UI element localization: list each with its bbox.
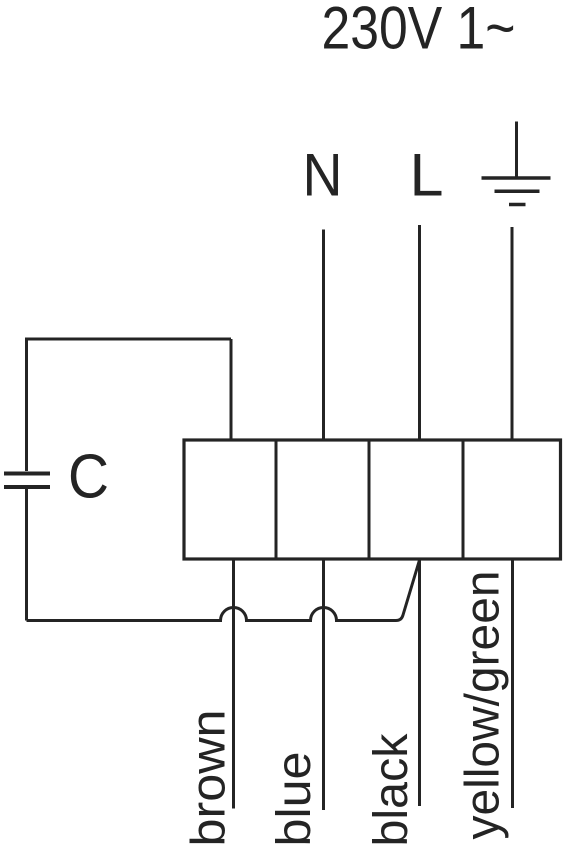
label black bbox=[365, 732, 418, 846]
label brown bbox=[183, 710, 236, 847]
svg-text:black: black bbox=[365, 732, 418, 846]
wire N to terminal 2 bbox=[322, 230, 325, 441]
wire blue from terminal 2 bbox=[322, 559, 325, 810]
svg-text:C: C bbox=[68, 443, 109, 512]
wire capacitor loop right vertical to terminal 1 bbox=[230, 339, 233, 440]
label yellow/green bbox=[457, 571, 510, 840]
label blue bbox=[268, 752, 321, 847]
wire capacitor left vertical lower bbox=[25, 489, 28, 621]
wire capacitor left vertical upper bbox=[25, 338, 28, 472]
ground / protective earth symbol bbox=[482, 122, 551, 205]
svg-text:N: N bbox=[303, 142, 343, 209]
wire yellow/green from terminal 4 bbox=[511, 559, 514, 808]
svg-text:L: L bbox=[410, 142, 444, 209]
terminal label L bbox=[410, 142, 444, 209]
svg-text:yellow/green: yellow/green bbox=[457, 571, 510, 840]
terminal block divider 2 bbox=[368, 440, 371, 559]
wire capacitor loop bottom with hops over brown and blue wires bbox=[27, 560, 420, 621]
terminal block outline bbox=[184, 440, 561, 559]
svg-text:brown: brown bbox=[183, 710, 236, 847]
wire capacitor loop top horizontal bbox=[27, 338, 232, 341]
wire earth to terminal 4 bbox=[511, 227, 514, 440]
svg-text:blue: blue bbox=[268, 752, 321, 847]
terminal block divider 3 bbox=[462, 440, 465, 559]
label C bbox=[68, 443, 109, 512]
terminal block divider 1 bbox=[275, 440, 278, 559]
svg-text:230V 1~: 230V 1~ bbox=[322, 0, 516, 62]
wire black from terminal 3 bbox=[418, 559, 421, 806]
wire L to terminal 3 bbox=[418, 225, 421, 440]
terminal label N bbox=[303, 142, 343, 209]
label 230V 1~ supply bbox=[322, 0, 516, 62]
capacitor C bbox=[4, 474, 50, 488]
wire brown from terminal 1 bbox=[232, 559, 235, 809]
